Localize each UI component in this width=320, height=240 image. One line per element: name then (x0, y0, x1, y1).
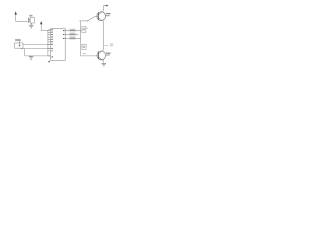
op-amp U1 (51, 29, 66, 61)
pin stubs left (48, 30, 51, 56)
port OUT1 (104, 5, 109, 7)
wire (103, 22, 105, 50)
pin numbers right (63, 30, 65, 39)
wire (16, 20, 28, 22)
resistor R1 (82, 27, 88, 33)
wire (80, 21, 82, 56)
wire (23, 44, 51, 46)
battery BT1 (28, 15, 34, 23)
node (103, 45, 104, 46)
wire (25, 55, 51, 57)
pin numbers (48, 29, 53, 62)
pin stubs right (65, 31, 81, 39)
transistor Q1 (97, 6, 111, 22)
node (87, 20, 88, 21)
resistor R2 (82, 44, 86, 54)
net flag C (69, 37, 75, 40)
net flag B (69, 33, 75, 36)
wire (103, 61, 105, 63)
wire (24, 49, 26, 56)
node bus (47, 30, 49, 56)
wire (41, 30, 50, 32)
net label text (110, 44, 114, 47)
port OUT2 (104, 45, 109, 47)
ground (29, 23, 34, 28)
power arrow VCC2 (40, 21, 42, 31)
transistor Q2 (97, 50, 111, 61)
wire (81, 55, 99, 57)
wire (21, 48, 51, 50)
connector J1 (15, 39, 23, 48)
net flag A (69, 29, 75, 32)
node (80, 30, 81, 31)
ground (102, 63, 107, 66)
ground (29, 56, 34, 59)
power arrow VCC1 (15, 11, 17, 21)
wire (79, 20, 87, 22)
wire (88, 16, 99, 21)
